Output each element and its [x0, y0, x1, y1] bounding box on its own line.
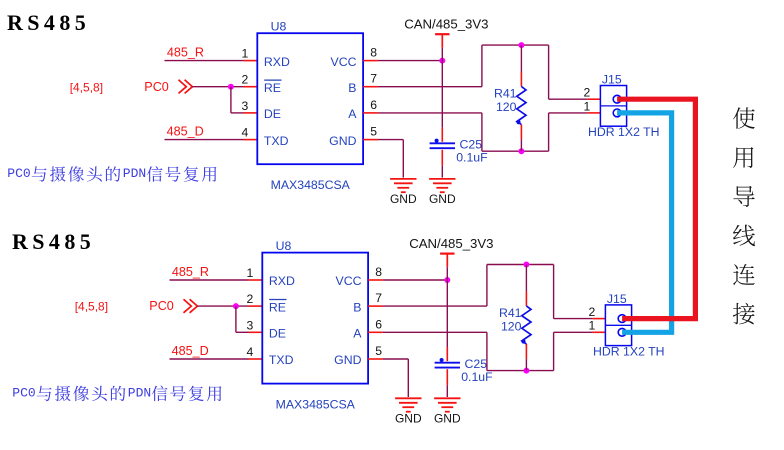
svg-text:7: 7	[375, 291, 382, 305]
svg-text:VCC: VCC	[336, 274, 362, 288]
svg-text:U8: U8	[271, 19, 287, 33]
svg-text:3: 3	[242, 99, 249, 113]
svg-text:U8: U8	[276, 239, 292, 253]
resistor R41 pin1 dot (upper)	[516, 120, 520, 124]
junction dot R41 bottom (upper)	[518, 148, 524, 154]
pin stub U8 pin 4 (upper)	[244, 139, 258, 141]
wire VCC pin 8 to power rail (upper)	[378, 60, 442, 62]
capacitor C25 top pin (upper)	[441, 128, 443, 142]
svg-text:8: 8	[375, 265, 382, 279]
port chevron PC0 (lower)	[184, 299, 198, 313]
pin stub U8 pin 1 (lower)	[249, 279, 263, 281]
svg-text:PC0: PC0	[7, 166, 30, 181]
wire loop right lower (lower)	[553, 332, 555, 370]
svg-text:CAN/485_3V3: CAN/485_3V3	[409, 236, 493, 251]
svg-text:PDN: PDN	[128, 385, 151, 400]
wire loop to J15 pin 1 (upper)	[549, 112, 588, 114]
wire PC0 branch down (upper)	[230, 87, 232, 113]
pin stub U8 pin 6 (lower)	[368, 331, 383, 333]
wire loop right upper (upper)	[548, 45, 550, 99]
wire PC0 to U8 pin 2 (upper)	[192, 86, 243, 88]
resistor R41 pin1 dot (lower)	[521, 339, 525, 343]
svg-text:120: 120	[496, 100, 517, 114]
svg-text:1: 1	[247, 266, 254, 280]
svg-text:6: 6	[370, 98, 377, 112]
wire PC0 to U8 pin 2 (lower)	[197, 305, 248, 307]
svg-text:DE: DE	[269, 327, 286, 341]
pin stub U8 pin 5 (upper)	[363, 139, 378, 141]
svg-text:[4,5,8]: [4,5,8]	[70, 80, 103, 94]
thick cyan jumper wire J15 pin1 upper to J15 pin1 lower	[617, 113, 672, 332]
svg-text:PDN: PDN	[123, 166, 146, 181]
svg-text:GND: GND	[329, 134, 356, 148]
pin stub U8 pin 2 (lower)	[249, 305, 263, 307]
capacitor C25 bottom pin (lower)	[446, 369, 448, 385]
wire U8 pin 5 to ground (upper)	[378, 139, 403, 141]
pin stub U8 pin 1 (upper)	[244, 60, 258, 62]
pin stub J15 pin 1 (lower)	[593, 331, 606, 333]
svg-text:MAX3485CSA: MAX3485CSA	[276, 398, 356, 412]
svg-text:485_D: 485_D	[172, 344, 209, 358]
svg-text:2: 2	[589, 305, 596, 319]
svg-text:3: 3	[247, 318, 254, 332]
wire A pin 6 to loop (lower)	[383, 331, 487, 333]
capacitor C25 top pin (lower)	[446, 347, 448, 361]
ground symbol left (lower)	[395, 398, 421, 411]
svg-text:485_D: 485_D	[167, 125, 204, 139]
svg-text:7: 7	[370, 72, 377, 86]
svg-text:[4,5,8]: [4,5,8]	[75, 300, 108, 314]
ground symbol right (upper)	[429, 179, 455, 192]
svg-text:120: 120	[501, 319, 522, 333]
pin stub U8 pin 7 (lower)	[368, 305, 383, 307]
wire C25 to ground (upper)	[441, 166, 443, 178]
svg-text:A: A	[353, 327, 362, 341]
svg-text:1: 1	[242, 47, 249, 61]
svg-text:B: B	[348, 81, 356, 95]
connector J15 pin 2 circle (upper)	[613, 95, 621, 103]
svg-text:4: 4	[247, 345, 254, 359]
connector J15 body (lower)	[605, 305, 631, 346]
svg-text:485_R: 485_R	[172, 265, 209, 279]
junction dot R41 top (lower)	[523, 262, 529, 268]
connector J15 pin 1 circle (upper)	[613, 109, 621, 117]
pin stub J15 pin 2 (upper)	[588, 98, 601, 100]
svg-text:0.1uF: 0.1uF	[456, 150, 488, 164]
power symbol CAN/485_3V3 (lower)	[440, 253, 454, 255]
note PC0/PDN (lower)	[12, 385, 221, 401]
svg-text:5: 5	[370, 125, 377, 139]
capacitor C25 plates (lower)	[435, 362, 460, 364]
thick red jumper wire J15 pin2 upper to J15 pin2 lower	[617, 99, 695, 318]
wire U8 pin 5 to ground (lower)	[383, 358, 408, 360]
wire loop right upper (lower)	[553, 265, 555, 319]
svg-text:CAN/485_3V3: CAN/485_3V3	[404, 16, 488, 31]
connector J15 body (upper)	[600, 86, 626, 127]
junction dot VCC rail (lower)	[444, 277, 450, 283]
capacitor C25 bottom pin (upper)	[441, 150, 443, 166]
svg-text:TXD: TXD	[269, 353, 294, 367]
wire loop left lower (upper)	[481, 113, 483, 151]
svg-text:VCC: VCC	[331, 55, 357, 69]
port chevron PC0 (upper)	[179, 80, 193, 94]
svg-text:PC0: PC0	[149, 299, 174, 313]
svg-text:2: 2	[584, 86, 591, 100]
wire 485_D to U8 pin 4 (upper)	[165, 139, 244, 141]
svg-text:MAX3485CSA: MAX3485CSA	[271, 178, 351, 192]
pin stub U8 pin 8 (lower)	[368, 279, 383, 281]
resistor R41 (upper)	[520, 45, 522, 72]
ground symbol right (lower)	[434, 398, 460, 411]
pin stub J15 pin 1 (upper)	[588, 112, 601, 114]
junction dot PC0 node (lower)	[233, 303, 239, 309]
IC body U8 MAX3485 (upper)	[257, 33, 363, 164]
svg-text:2: 2	[247, 292, 254, 306]
svg-text:2: 2	[242, 73, 249, 87]
wire A pin 6 to loop (upper)	[378, 112, 482, 114]
svg-text:6: 6	[375, 317, 382, 331]
svg-text:B: B	[353, 300, 361, 314]
svg-text:GND: GND	[334, 353, 361, 367]
svg-text:0.1uF: 0.1uF	[461, 370, 493, 384]
wire loop to J15 pin 1 (lower)	[554, 331, 593, 333]
IC body U8 MAX3485 (lower)	[262, 253, 368, 384]
wire loop bottom (upper)	[482, 150, 549, 152]
svg-text:GND: GND	[429, 192, 456, 206]
svg-text:485_R: 485_R	[167, 46, 204, 60]
pin stub U8 pin 6 (upper)	[363, 112, 378, 114]
svg-text:R41: R41	[499, 306, 522, 320]
svg-text:HDR 1X2 TH: HDR 1X2 TH	[588, 125, 660, 139]
wire 485_D to U8 pin 4 (lower)	[170, 358, 249, 360]
svg-text:TXD: TXD	[264, 134, 289, 148]
capacitor C25 plates (upper)	[430, 142, 455, 144]
junction dot VCC rail (upper)	[439, 58, 445, 64]
svg-text:8: 8	[370, 46, 377, 60]
svg-text:RE: RE	[264, 81, 281, 95]
overline RE (lower)	[269, 299, 286, 301]
wire power rail down (upper)	[441, 48, 443, 128]
svg-text:A: A	[348, 107, 357, 121]
wire loop left upper (lower)	[486, 265, 488, 307]
wire loop top (upper)	[482, 44, 549, 46]
connector J15 pin 2 circle (lower)	[618, 315, 626, 323]
wire branch to U8 pin 3 (lower)	[236, 331, 249, 333]
pin stub U8 pin 3 (upper)	[244, 112, 258, 114]
wire B pin 7 to loop (upper)	[378, 86, 482, 88]
junction dot R41 top (upper)	[518, 42, 524, 48]
wire C25 to ground (lower)	[446, 385, 448, 397]
resistor R41 (lower)	[525, 265, 527, 292]
wire 485_R to U8 pin 1 (upper)	[165, 60, 244, 62]
wire loop bottom (lower)	[487, 370, 554, 372]
wire loop right lower (upper)	[548, 113, 550, 151]
svg-text:4: 4	[242, 126, 249, 140]
wire loop top (lower)	[487, 264, 554, 266]
svg-text:1: 1	[584, 99, 591, 113]
svg-text:GND: GND	[434, 411, 461, 425]
junction dot PC0 node (upper)	[228, 84, 234, 90]
connector J15 pin 1 circle (lower)	[618, 328, 626, 336]
wire B pin 7 to loop (lower)	[383, 305, 487, 307]
pin stub U8 pin 2 (upper)	[244, 86, 258, 88]
svg-text:RS485: RS485	[7, 10, 90, 35]
wire VCC pin 8 to power rail (lower)	[383, 279, 447, 281]
wire PC0 branch down (lower)	[235, 306, 237, 332]
wire branch to U8 pin 3 (upper)	[231, 112, 244, 114]
overline RE (upper)	[264, 79, 281, 81]
svg-text:GND: GND	[390, 192, 417, 206]
wire power rail down (lower)	[446, 267, 448, 347]
capacitor C25 polarity dot (lower)	[440, 358, 444, 362]
pin stub U8 pin 7 (upper)	[363, 86, 378, 88]
wire loop to J15 pin 2 (lower)	[554, 318, 593, 320]
power symbol CAN/485_3V3 (upper)	[435, 33, 449, 35]
wire loop left lower (lower)	[486, 332, 488, 370]
svg-text:RXD: RXD	[264, 55, 290, 69]
pin stub U8 pin 4 (lower)	[249, 358, 263, 360]
wire 485_R to U8 pin 1 (lower)	[170, 279, 249, 281]
pin stub J15 pin 2 (lower)	[593, 318, 606, 320]
svg-text:RE: RE	[269, 300, 286, 314]
svg-text:DE: DE	[264, 107, 281, 121]
svg-text:J15: J15	[607, 292, 627, 306]
pin stub U8 pin 3 (lower)	[249, 331, 263, 333]
svg-text:R41: R41	[494, 87, 517, 101]
pin stub U8 pin 5 (lower)	[368, 358, 383, 360]
note PC0/PDN (upper)	[7, 166, 216, 182]
svg-text:HDR 1X2 TH: HDR 1X2 TH	[593, 344, 665, 358]
svg-text:RS485: RS485	[12, 229, 95, 254]
wire loop to J15 pin 2 (upper)	[549, 98, 588, 100]
svg-text:5: 5	[375, 344, 382, 358]
junction dot R41 bottom (lower)	[523, 368, 529, 374]
svg-text:J15: J15	[602, 73, 622, 87]
pin stub U8 pin 8 (upper)	[363, 60, 378, 62]
capacitor C25 polarity dot (upper)	[435, 139, 439, 143]
svg-text:1: 1	[589, 319, 596, 333]
svg-text:PC0: PC0	[12, 385, 35, 400]
svg-text:RXD: RXD	[269, 274, 295, 288]
wire loop left upper (upper)	[481, 45, 483, 87]
svg-text:GND: GND	[395, 411, 422, 425]
ground symbol left (upper)	[390, 179, 416, 192]
vertical annotation 使用导线连接	[733, 107, 755, 324]
svg-text:PC0: PC0	[144, 80, 169, 94]
